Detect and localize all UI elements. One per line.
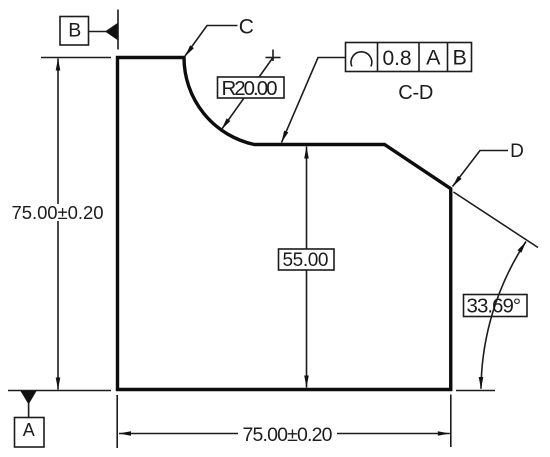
svg-text:75.00±0.20: 75.00±0.20 — [12, 202, 104, 223]
svg-text:R20.00: R20.00 — [222, 77, 278, 100]
dimension line 55 vertical — [306, 147, 308, 388]
svg-text:0.8: 0.8 — [383, 47, 412, 70]
datum B stem — [89, 31, 107, 33]
svg-text:A: A — [23, 420, 35, 440]
svg-text:D: D — [510, 141, 524, 162]
arrow leader C — [185, 45, 194, 56]
feature control frame leader — [282, 58, 346, 143]
arrow 75-horiz right — [438, 431, 450, 436]
arrow 75-horiz left — [119, 431, 131, 436]
arrow leader D — [453, 176, 462, 187]
svg-text:C: C — [239, 16, 254, 39]
label R20.00 boxed — [218, 77, 285, 98]
svg-text:55.00: 55.00 — [283, 250, 329, 271]
extension line bottom-left — [8, 390, 111, 392]
label 55.00 boxed — [279, 249, 335, 270]
label 75.00±0.20 horizontal — [238, 425, 337, 442]
arrow angle lower — [479, 377, 484, 389]
arrow angle upper — [518, 242, 527, 253]
arrow 55-dim top — [304, 147, 309, 159]
radius center mark — [266, 57, 281, 59]
datum B frame — [60, 17, 89, 46]
feature control frame — [346, 43, 472, 72]
extension line below bottom-left corner — [116, 395, 118, 448]
arrow 75-dim bottom — [56, 378, 61, 390]
extension line bottom-right — [456, 390, 495, 392]
radius leader line — [222, 58, 274, 130]
angle dimension arc — [481, 242, 526, 389]
label 75.00±0.20 vertical — [10, 204, 105, 221]
label 33.69 boxed — [464, 295, 528, 317]
slant extension line — [454, 192, 539, 248]
svg-text:75.00±0.20: 75.00±0.20 — [243, 424, 333, 446]
dimension line 75 horizontal — [119, 433, 450, 435]
svg-text:B: B — [453, 46, 467, 70]
svg-text:C-D: C-D — [398, 82, 433, 104]
arrow FCF leader — [282, 131, 289, 143]
svg-text:A: A — [426, 46, 441, 70]
datum A frame — [15, 418, 45, 448]
svg-text:33.69°: 33.69° — [467, 295, 522, 318]
profile of a line symbol — [351, 52, 372, 67]
arrow 55-dim bottom — [304, 376, 309, 388]
leader D — [453, 151, 509, 187]
datum B triangle — [105, 23, 118, 40]
arrow radius leader — [222, 118, 231, 129]
extension line top-left — [41, 57, 111, 59]
leader C — [185, 26, 238, 57]
arrow 75-dim top — [56, 59, 61, 71]
svg-text:B: B — [68, 20, 81, 42]
part outline — [118, 58, 451, 390]
datum A stem — [28, 403, 30, 418]
datum A extension (shares bottom-left ext line) triangle — [21, 391, 37, 405]
extension line below bottom-right corner — [450, 395, 452, 448]
datum B extension line — [117, 10, 119, 50]
dimension line 75 vertical — [57, 59, 59, 390]
